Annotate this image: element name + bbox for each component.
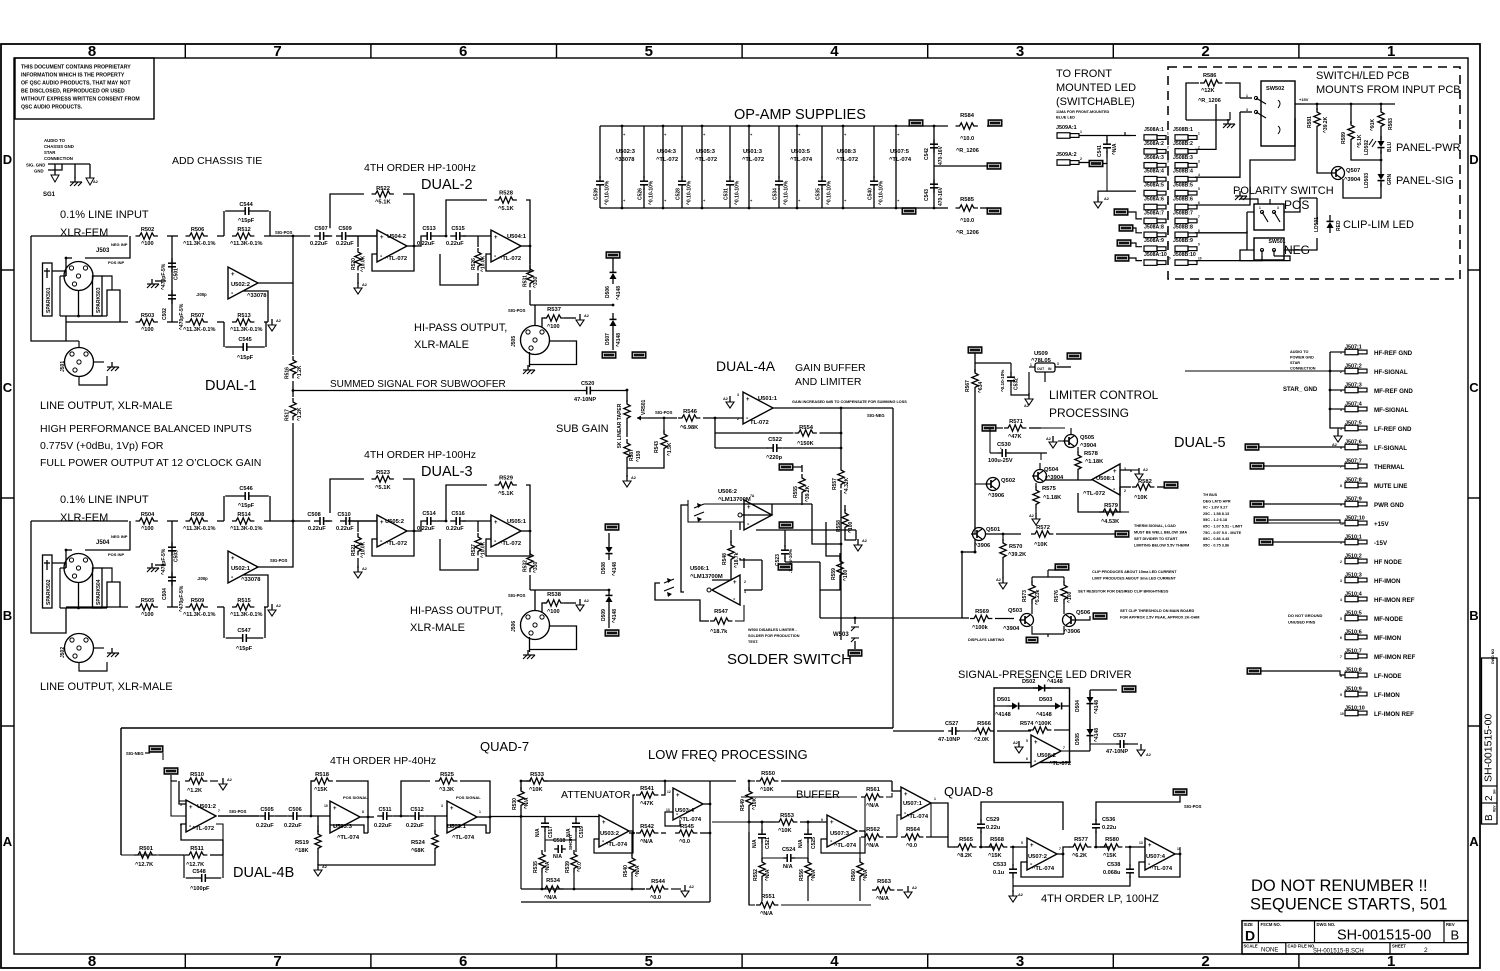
svg-text:R571: R571 bbox=[1009, 419, 1024, 425]
svg-text:R508: R508 bbox=[191, 512, 204, 518]
tag J510:8 bbox=[1247, 668, 1345, 675]
svg-text:^N/A: ^N/A bbox=[544, 895, 557, 901]
capacitor C511 bbox=[374, 807, 393, 829]
label SIG-POS gain bbox=[655, 410, 673, 415]
svg-text:+: + bbox=[231, 556, 235, 562]
resistor R533 bbox=[526, 772, 548, 793]
capacitor C503 bbox=[161, 521, 180, 607]
svg-text:C547: C547 bbox=[237, 628, 250, 634]
svg-text:^TL-074: ^TL-074 bbox=[605, 842, 628, 848]
resistor R558 bbox=[836, 505, 856, 540]
svg-text:^3904: ^3904 bbox=[1080, 443, 1097, 449]
svg-text:MUTE LINE: MUTE LINE bbox=[1374, 483, 1407, 490]
IC power pins U504:3 bbox=[656, 125, 678, 210]
resistor R506 bbox=[183, 227, 216, 247]
svg-text:4: 4 bbox=[1167, 173, 1169, 177]
svg-text:J508B:10: J508B:10 bbox=[1173, 252, 1196, 258]
svg-text:^5.1K: ^5.1K bbox=[375, 200, 391, 206]
svg-text:^N/A: ^N/A bbox=[1112, 143, 1118, 155]
transistor Q507 bbox=[1317, 167, 1361, 184]
svg-text:^N/A: ^N/A bbox=[524, 797, 530, 809]
svg-text:^3904: ^3904 bbox=[1003, 626, 1020, 632]
svg-text:POS: POS bbox=[1284, 198, 1309, 212]
ground A2 R537 bbox=[576, 314, 589, 326]
svg-text:OF QSC AUDIO PRODUCTS, THAT MA: OF QSC AUDIO PRODUCTS, THAT MAY NOT bbox=[21, 81, 131, 87]
resistor R579 bbox=[1078, 487, 1129, 525]
wire U503:1 fb out bbox=[447, 816, 521, 833]
svg-text:^0.10-10%: ^0.10-10% bbox=[649, 180, 655, 205]
svg-text:^11.3K-0.1%: ^11.3K-0.1% bbox=[183, 327, 216, 333]
wire atten right edge bbox=[521, 781, 710, 902]
capacitor C538 bbox=[1013, 847, 1134, 886]
tag J507:6 bbox=[1245, 444, 1345, 451]
wire U505:1 fb out bbox=[486, 530, 531, 556]
IC power pins U505:3 bbox=[695, 125, 717, 210]
tag R582 bbox=[1164, 482, 1178, 489]
svg-text:C525: C525 bbox=[811, 837, 817, 849]
tag J508A:9 bbox=[1117, 240, 1142, 247]
svg-text:SOLDER SWITCH: SOLDER SWITCH bbox=[727, 651, 852, 668]
capacitor C522 bbox=[715, 437, 842, 461]
connector J502 XLR male bbox=[60, 633, 107, 671]
op-amp U504:2 bbox=[377, 230, 407, 262]
ground A2 C533 bbox=[1009, 886, 1023, 902]
svg-text:5: 5 bbox=[645, 43, 653, 60]
svg-text:POS SIGNAL: POS SIGNAL bbox=[343, 795, 368, 800]
svg-text:.200p: .200p bbox=[197, 576, 208, 581]
svg-text:SIG-NEG: SIG-NEG bbox=[126, 751, 144, 756]
resistor R563 bbox=[872, 879, 903, 902]
svg-text:2: 2 bbox=[1080, 157, 1082, 161]
svg-text:R537: R537 bbox=[547, 307, 561, 313]
resistor R589 bbox=[1341, 104, 1363, 158]
svg-text:A2: A2 bbox=[862, 539, 867, 543]
svg-text:0.22uF: 0.22uF bbox=[406, 823, 424, 829]
resistor R555 bbox=[793, 465, 811, 505]
connector J508B:6 bbox=[1173, 197, 1200, 210]
svg-text:+: + bbox=[602, 820, 606, 826]
svg-text:0.22uF: 0.22uF bbox=[374, 823, 392, 829]
svg-text:^R_1206: ^R_1206 bbox=[1198, 98, 1221, 104]
wire U507:4 fb out bbox=[1139, 847, 1181, 877]
diode D501 bbox=[994, 697, 1050, 718]
svg-text:0.22uF: 0.22uF bbox=[310, 241, 328, 247]
wire q emitters bbox=[1032, 626, 1064, 637]
svg-text:470-16V: 470-16V bbox=[938, 145, 944, 165]
svg-text:C508: C508 bbox=[307, 512, 320, 518]
svg-text:0.22uF: 0.22uF bbox=[308, 526, 326, 532]
svg-text:C506: C506 bbox=[288, 807, 301, 813]
diode D508 bbox=[601, 524, 619, 576]
label SUMMED SIGNAL FOR SUBWOOFER bbox=[330, 379, 506, 390]
svg-text:CONNECTION: CONNECTION bbox=[1290, 367, 1316, 371]
svg-text:HIGH PERFORMANCE BALANCED INPU: HIGH PERFORMANCE BALANCED INPUTS bbox=[40, 423, 252, 435]
ground A2 R510 bbox=[219, 778, 232, 790]
svg-text:C546: C546 bbox=[239, 486, 252, 492]
label QUAD-8 bbox=[944, 784, 993, 799]
label DUAL-4A bbox=[716, 358, 776, 374]
label LINE OUTPUT, XLR-MALE bbox=[40, 681, 173, 693]
svg-text:A2: A2 bbox=[1018, 893, 1023, 897]
svg-text:SG1: SG1 bbox=[43, 192, 56, 198]
svg-text:DWG NO: DWG NO bbox=[1491, 649, 1495, 664]
svg-text:^TL-074: ^TL-074 bbox=[1032, 866, 1055, 872]
svg-text:N/A: N/A bbox=[553, 854, 562, 860]
svg-text:^100: ^100 bbox=[141, 241, 154, 247]
svg-text:C528: C528 bbox=[676, 188, 682, 200]
ground hatch C501 bbox=[147, 279, 166, 288]
resistor R568 bbox=[985, 837, 1027, 859]
label ADD CHASSIS TIE bbox=[172, 155, 262, 167]
svg-text:LD501: LD501 bbox=[1314, 217, 1320, 232]
svg-text:^TL-072: ^TL-072 bbox=[499, 256, 521, 262]
resistor R510 bbox=[171, 772, 218, 794]
resistor R511 bbox=[159, 846, 223, 868]
svg-text:C545: C545 bbox=[238, 337, 251, 343]
svg-text:SPARK502: SPARK502 bbox=[46, 579, 52, 605]
note audio to power gnd bbox=[1290, 350, 1316, 371]
connector J510:10 LF-IMON REF bbox=[1340, 706, 1414, 719]
ground A2 J508A bbox=[1094, 191, 1136, 208]
svg-text:C535: C535 bbox=[816, 188, 822, 200]
svg-text:R566: R566 bbox=[977, 721, 992, 727]
ground hatch SW501 bbox=[1235, 191, 1247, 200]
svg-text:BLU: BLU bbox=[1387, 141, 1393, 152]
svg-text:IN: IN bbox=[1048, 367, 1052, 371]
svg-text:R524: R524 bbox=[411, 840, 426, 846]
svg-text:1: 1 bbox=[1030, 363, 1032, 367]
svg-text:R539: R539 bbox=[565, 861, 571, 873]
transistor Q503 bbox=[1003, 608, 1034, 632]
svg-text:^330: ^330 bbox=[533, 277, 539, 288]
IC power pins U501:3 bbox=[742, 125, 764, 210]
svg-text:C510: C510 bbox=[337, 512, 350, 518]
svg-text:SET CLIP THRESHOLD ON MAIN BOA: SET CLIP THRESHOLD ON MAIN BOARD bbox=[1120, 609, 1194, 613]
note gain increased bbox=[792, 400, 907, 404]
svg-text:^TL-074: ^TL-074 bbox=[337, 835, 360, 841]
capacitor C517 bbox=[535, 818, 554, 838]
svg-text:9: 9 bbox=[821, 818, 823, 822]
resistor R562 bbox=[859, 827, 897, 849]
connector J505 XLR male bbox=[511, 326, 577, 368]
svg-text:6: 6 bbox=[459, 43, 467, 60]
svg-text:OP-AMP SUPPLIES: OP-AMP SUPPLIES bbox=[734, 107, 866, 123]
label PANEL-SIG bbox=[1396, 175, 1454, 187]
svg-text:A2: A2 bbox=[1143, 468, 1148, 472]
svg-text:^TL-072: ^TL-072 bbox=[1049, 761, 1071, 767]
svg-text:SIZE: SIZE bbox=[1244, 922, 1254, 927]
svg-text:R543: R543 bbox=[654, 441, 660, 453]
svg-text:Q502: Q502 bbox=[1001, 478, 1015, 484]
svg-text:5: 5 bbox=[1026, 739, 1028, 743]
svg-text:^10K: ^10K bbox=[529, 787, 543, 793]
svg-text:C517: C517 bbox=[548, 826, 554, 838]
svg-text:10: 10 bbox=[1340, 712, 1344, 716]
svg-text:D503: D503 bbox=[1039, 697, 1052, 703]
wire U504:2 fb bbox=[372, 245, 415, 271]
connector J507:10 +15V bbox=[1340, 516, 1389, 529]
resistor R548 bbox=[722, 530, 740, 575]
wire led box bbox=[1351, 158, 1382, 161]
svg-text:C524: C524 bbox=[782, 847, 796, 853]
tag R567 top bbox=[968, 347, 982, 354]
svg-text:XLR-FEM: XLR-FEM bbox=[60, 227, 108, 239]
svg-text:-15V: -15V bbox=[1374, 540, 1388, 547]
svg-text:U505:3: U505:3 bbox=[696, 149, 716, 155]
svg-text:SUB GAIN: SUB GAIN bbox=[556, 423, 609, 435]
resistor R560 bbox=[851, 837, 869, 901]
svg-text:B: B bbox=[1469, 608, 1478, 623]
svg-text:HI-PASS OUTPUT,: HI-PASS OUTPUT, bbox=[414, 322, 507, 334]
svg-text:A2: A2 bbox=[276, 604, 281, 608]
svg-text:R578: R578 bbox=[1084, 451, 1099, 457]
label QUAD-7 bbox=[480, 739, 529, 754]
svg-text:^39.2K: ^39.2K bbox=[805, 485, 811, 502]
svg-text:^634: ^634 bbox=[978, 382, 984, 393]
svg-text:^4148: ^4148 bbox=[1094, 700, 1100, 714]
svg-text:BUFFER: BUFFER bbox=[796, 789, 840, 801]
svg-text:C501: C501 bbox=[174, 268, 180, 280]
svg-text:R515: R515 bbox=[237, 598, 250, 604]
box low freq outline bbox=[121, 728, 893, 855]
svg-text:^330: ^330 bbox=[533, 562, 539, 573]
capacitor C528 bbox=[676, 126, 693, 208]
svg-text:A2: A2 bbox=[631, 476, 636, 480]
svg-text:R528: R528 bbox=[499, 191, 514, 197]
svg-text:U501:1: U501:1 bbox=[758, 396, 778, 402]
svg-text:^0.10-10%: ^0.10-10% bbox=[879, 180, 885, 205]
svg-text:UNUSED PINS: UNUSED PINS bbox=[1288, 620, 1316, 625]
capacitor C506 bbox=[275, 807, 330, 829]
svg-text:SIG-NEG: SIG-NEG bbox=[867, 413, 885, 418]
op-amp U508:1 bbox=[1046, 464, 1131, 497]
label XLR-MALE bbox=[414, 339, 469, 351]
resistor R547 bbox=[700, 605, 744, 635]
capacitor C507 bbox=[310, 226, 330, 247]
svg-text:J508B:2: J508B:2 bbox=[1173, 141, 1193, 147]
wire polarity mesh bbox=[1247, 198, 1317, 250]
label 4TH ORDER HP-100Hz bbox=[364, 162, 476, 174]
svg-text:U505:2: U505:2 bbox=[385, 519, 404, 525]
resistor R531 bbox=[523, 246, 540, 305]
svg-text:3: 3 bbox=[737, 393, 739, 397]
svg-text:1: 1 bbox=[1167, 132, 1169, 136]
wire U502:1 out bbox=[256, 520, 294, 567]
svg-text:TEST.: TEST. bbox=[748, 640, 758, 644]
resistor R549 bbox=[740, 780, 758, 824]
svg-text:DUAL-1: DUAL-1 bbox=[205, 378, 257, 394]
svg-text:R545: R545 bbox=[680, 824, 695, 830]
tag D507 bottom bbox=[602, 352, 616, 359]
svg-text:A2: A2 bbox=[1046, 437, 1051, 441]
wire C541 to J508A:5 bbox=[1106, 164, 1108, 192]
svg-text:1: 1 bbox=[1198, 132, 1200, 136]
svg-text:7: 7 bbox=[1198, 215, 1200, 219]
svg-text:6: 6 bbox=[459, 953, 467, 970]
svg-text:MF-NODE: MF-NODE bbox=[1374, 616, 1403, 623]
svg-text:NEG INP: NEG INP bbox=[111, 534, 128, 539]
connector J510:3 HF-IMON bbox=[1340, 573, 1401, 586]
svg-text:U502:2: U502:2 bbox=[231, 282, 250, 288]
label (SWITCHABLE) bbox=[1056, 96, 1135, 108]
resistor R580 bbox=[1100, 837, 1145, 859]
svg-text:R584: R584 bbox=[960, 113, 975, 119]
wire ota mesh bbox=[655, 504, 856, 605]
tag 4b top bbox=[149, 746, 163, 753]
svg-text:R546: R546 bbox=[683, 409, 698, 415]
capacitor C536 loop bbox=[1092, 796, 1180, 847]
svg-text:^N/A: ^N/A bbox=[640, 839, 653, 845]
LED LD501 bbox=[1314, 198, 1342, 233]
label SWITCH/LED PCB bbox=[1316, 70, 1410, 82]
connector J507:8 MUTE LINE bbox=[1340, 478, 1407, 491]
ground SG1 chassis star connection bbox=[26, 138, 98, 198]
svg-text:A2: A2 bbox=[1104, 197, 1109, 201]
svg-text:+: + bbox=[733, 580, 737, 586]
wire bus x841 bbox=[840, 408, 842, 640]
svg-text:R532: R532 bbox=[523, 560, 529, 572]
svg-text:R533: R533 bbox=[530, 772, 545, 778]
wire stage2 B bbox=[414, 516, 491, 531]
tag q8 out bbox=[1173, 789, 1202, 809]
box signal presence bbox=[994, 688, 1070, 763]
capacitor C547 bbox=[224, 607, 265, 652]
svg-text:R522: R522 bbox=[376, 186, 390, 192]
resistor R542 bbox=[629, 824, 666, 845]
svg-text:^N/A: ^N/A bbox=[866, 803, 879, 809]
note therm signal bbox=[1134, 524, 1189, 548]
svg-text:^10.0: ^10.0 bbox=[960, 136, 974, 142]
connector J507:7 THERMAL bbox=[1340, 459, 1404, 472]
svg-text:^N/A: ^N/A bbox=[765, 869, 771, 881]
svg-text:^TL-072: ^TL-072 bbox=[742, 157, 764, 163]
wire stage2 bbox=[414, 231, 491, 246]
resistor R551 bbox=[749, 822, 871, 917]
resistor R577 bbox=[1069, 837, 1110, 859]
switch SW501 polarity bbox=[1240, 199, 1284, 230]
resistor R524 bbox=[318, 816, 438, 865]
connector J510:2 HF NODE bbox=[1340, 554, 1402, 567]
svg-text:R548: R548 bbox=[722, 553, 728, 565]
svg-text:3: 3 bbox=[441, 804, 443, 808]
svg-text:GRN: GRN bbox=[1387, 174, 1393, 186]
svg-text:+: + bbox=[746, 397, 750, 403]
note displays limiting bbox=[968, 638, 1004, 642]
svg-text:A2: A2 bbox=[1146, 753, 1151, 757]
svg-text:^1.18K: ^1.18K bbox=[1043, 495, 1061, 501]
resistor R501 bbox=[134, 846, 156, 868]
resistor R574 bbox=[1020, 721, 1070, 733]
svg-text:LIMIT PRODUCES ABOUT 3ma LED C: LIMIT PRODUCES ABOUT 3ma LED CURRENT bbox=[1092, 577, 1176, 581]
svg-text:J508A:6: J508A:6 bbox=[1144, 197, 1164, 203]
resistor R561 bbox=[741, 787, 892, 831]
svg-text:SPARK501: SPARK501 bbox=[46, 287, 52, 313]
svg-text:B: B bbox=[1451, 928, 1460, 943]
svg-text:5: 5 bbox=[645, 953, 653, 970]
svg-text:^10.0K: ^10.0K bbox=[361, 255, 367, 272]
svg-text:+15V: +15V bbox=[1374, 521, 1389, 528]
svg-text:C511: C511 bbox=[378, 807, 391, 813]
svg-text:A2: A2 bbox=[584, 599, 589, 603]
label MOUNTED LED bbox=[1056, 82, 1136, 94]
svg-text:5: 5 bbox=[1167, 187, 1169, 191]
svg-text:U507:1: U507:1 bbox=[903, 801, 923, 807]
svg-text:3: 3 bbox=[1198, 159, 1200, 163]
svg-text:SIG-POS: SIG-POS bbox=[229, 809, 247, 814]
svg-text:J505: J505 bbox=[511, 336, 517, 347]
wire U502:2 out bbox=[258, 235, 294, 283]
svg-text:U504-2: U504-2 bbox=[387, 234, 406, 240]
ground A2 Q505 bbox=[1046, 436, 1057, 448]
svg-text:^11.3K-0.1%: ^11.3K-0.1% bbox=[183, 526, 216, 532]
label SIG-POS A bbox=[275, 230, 293, 235]
svg-text:C526: C526 bbox=[638, 188, 644, 200]
svg-text:6: 6 bbox=[1167, 201, 1169, 205]
svg-text:R567: R567 bbox=[965, 380, 971, 392]
svg-text:^18.7k: ^18.7k bbox=[710, 629, 728, 635]
label GAIN BUFFER bbox=[795, 362, 866, 374]
svg-text:^12.7K: ^12.7K bbox=[135, 862, 153, 868]
svg-text:^3906: ^3906 bbox=[1064, 629, 1081, 635]
label XLR-MALE bbox=[410, 622, 465, 634]
svg-text:^4148: ^4148 bbox=[612, 609, 618, 623]
svg-text:^5.1K: ^5.1K bbox=[498, 491, 514, 497]
svg-text:0.22uF: 0.22uF bbox=[417, 241, 435, 247]
svg-text:A: A bbox=[3, 834, 13, 849]
resistor R576 bbox=[1054, 577, 1073, 614]
svg-text:^5.1K: ^5.1K bbox=[498, 206, 514, 212]
svg-text:+: + bbox=[333, 806, 337, 812]
svg-text:^5.1K: ^5.1K bbox=[1357, 134, 1363, 148]
svg-text:J508B:8: J508B:8 bbox=[1173, 224, 1193, 230]
svg-text:1: 1 bbox=[479, 810, 481, 814]
svg-text:W503: W503 bbox=[833, 632, 849, 638]
svg-text:^TL-072: ^TL-072 bbox=[385, 541, 407, 547]
label XLR-FEM bbox=[60, 227, 108, 239]
svg-text:GAIN BUFFER: GAIN BUFFER bbox=[795, 362, 866, 374]
label POS bbox=[1284, 198, 1309, 212]
tag sp bbox=[1122, 686, 1136, 693]
svg-text:B: B bbox=[3, 608, 12, 623]
svg-text:^0.10-10%: ^0.10-10% bbox=[605, 180, 611, 205]
svg-text:^4.32K: ^4.32K bbox=[844, 477, 850, 494]
svg-text:^10K: ^10K bbox=[1034, 542, 1048, 548]
connector SPARK504 bbox=[93, 568, 103, 608]
svg-text:R550: R550 bbox=[761, 771, 775, 777]
svg-text:47-10NP: 47-10NP bbox=[1106, 749, 1128, 755]
svg-text:0.1% LINE INPUT: 0.1% LINE INPUT bbox=[60, 209, 149, 221]
svg-text:+: + bbox=[189, 805, 193, 811]
svg-text:^LM13700M: ^LM13700M bbox=[690, 574, 723, 580]
tag C523 top bbox=[779, 522, 793, 529]
svg-text:RED: RED bbox=[1336, 220, 1342, 231]
svg-text:0.22uF: 0.22uF bbox=[417, 526, 435, 532]
wire U503:3 fb out bbox=[330, 816, 374, 833]
svg-text:75C - 0.97 5.0 - MUTE: 75C - 0.97 5.0 - MUTE bbox=[1203, 531, 1242, 535]
note set clip threshold bbox=[1120, 609, 1199, 620]
svg-text:^4148: ^4148 bbox=[995, 712, 1011, 718]
svg-text:QUAD-8: QUAD-8 bbox=[944, 784, 993, 799]
svg-text:R577: R577 bbox=[1074, 837, 1088, 843]
tag C520 top bbox=[632, 352, 646, 359]
svg-text:U507:4: U507:4 bbox=[1146, 854, 1166, 860]
resistor R571 bbox=[996, 419, 1041, 440]
resistor R514 bbox=[230, 512, 263, 532]
svg-text:0.775V (+0dBu, 1Vp) FOR: 0.775V (+0dBu, 1Vp) FOR bbox=[40, 440, 164, 452]
label POLARITY SWITCH bbox=[1233, 185, 1334, 197]
label SOLDER SWITCH bbox=[727, 651, 852, 668]
resistor R582 bbox=[1120, 479, 1165, 501]
